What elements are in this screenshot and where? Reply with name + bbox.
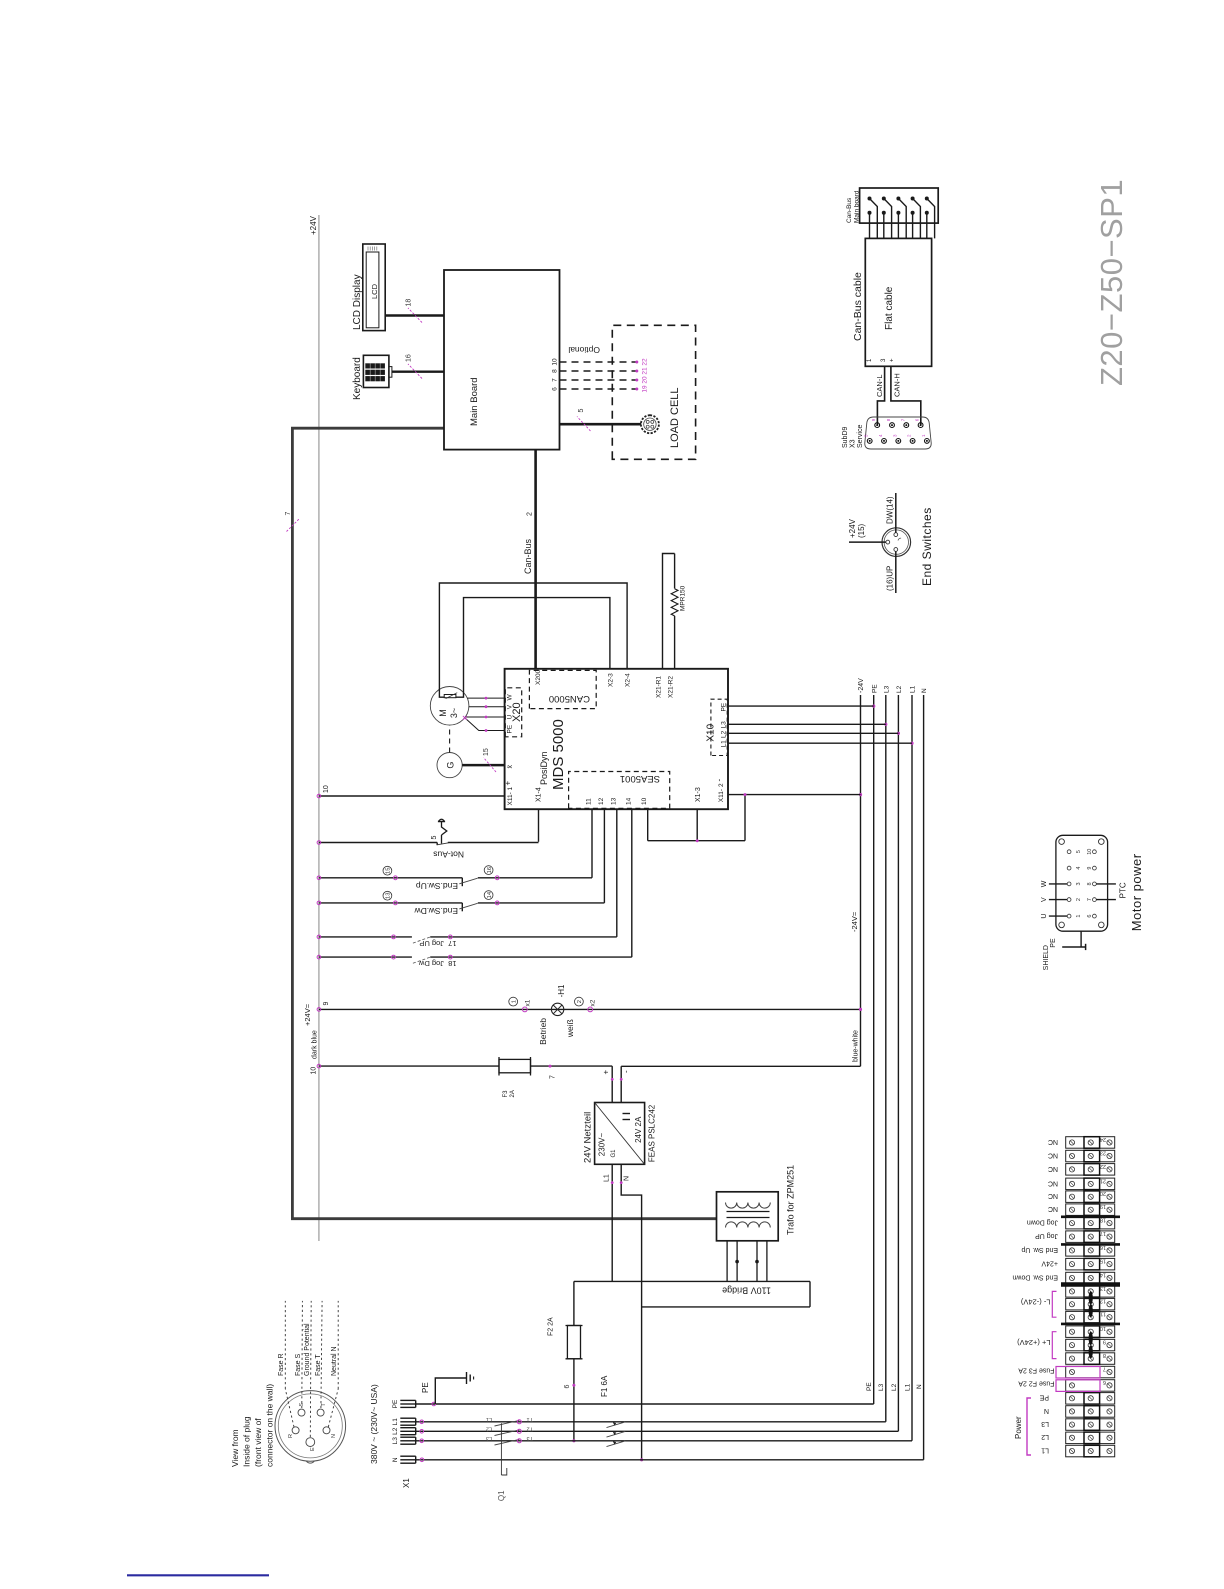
terminal strip column 24 bbox=[1066, 1137, 1115, 1149]
svg-text:X1-4: X1-4 bbox=[536, 787, 543, 802]
terminal strip column 17 bbox=[1066, 1231, 1115, 1243]
transformer T1 Trafo for ZPM251 bbox=[717, 1192, 779, 1241]
svg-text:U: U bbox=[1041, 914, 1048, 919]
svg-text:M: M bbox=[438, 709, 448, 717]
wire X2-4 to TF sensor bbox=[439, 583, 627, 697]
terminal strip column 18 bbox=[1066, 1217, 1115, 1229]
svg-text:-H1: -H1 bbox=[557, 984, 566, 997]
wire rung 10 to X11-1 bbox=[319, 795, 505, 797]
fuse F2 2A branch bbox=[573, 1281, 575, 1325]
terminal strip column 7 bbox=[1066, 1366, 1115, 1378]
svg-text:T2: T2 bbox=[527, 1426, 533, 1432]
svg-text:15: 15 bbox=[386, 867, 392, 873]
svg-text:1: 1 bbox=[512, 1000, 518, 1003]
terminal strip separators bbox=[1061, 1216, 1120, 1219]
wires motor power PTC bbox=[1096, 899, 1116, 901]
svg-text:Jog UP: Jog UP bbox=[419, 939, 444, 948]
block MDS 5000 PosiDyn bbox=[505, 669, 728, 809]
connector load cell plug bbox=[641, 415, 659, 433]
plug view circle bbox=[275, 1391, 346, 1462]
terminal strip column 13 bbox=[1066, 1286, 1115, 1298]
svg-text:MPR150: MPR150 bbox=[680, 585, 687, 611]
svg-text:x1: x1 bbox=[525, 999, 532, 1006]
svg-text:Fuse F2 2A: Fuse F2 2A bbox=[1018, 1380, 1055, 1387]
svg-text:CAN-H: CAN-H bbox=[893, 373, 902, 397]
svg-text:L1: L1 bbox=[486, 1416, 492, 1422]
svg-text:PosiDyn: PosiDyn bbox=[539, 751, 549, 785]
terminal strip column 9 bbox=[1066, 1339, 1115, 1351]
switch Jog UP (17) bbox=[319, 936, 412, 938]
svg-text:L2: L2 bbox=[486, 1426, 492, 1432]
svg-text:F2 2A: F2 2A bbox=[548, 1317, 555, 1336]
rail L2 vertical bbox=[416, 1430, 899, 1432]
svg-text:10: 10 bbox=[323, 785, 330, 793]
wire end switch DW(14) bbox=[895, 493, 897, 533]
svg-text:(front view of: (front view of bbox=[253, 1418, 263, 1467]
svg-text:N: N bbox=[392, 1457, 399, 1462]
wire netzteil plus bbox=[611, 1066, 613, 1102]
svg-text:Fase R: Fase R bbox=[278, 1353, 285, 1376]
wires motor power U V W bbox=[1049, 915, 1067, 917]
svg-text:2A: 2A bbox=[510, 1090, 516, 1097]
rail L1 horizontal bbox=[911, 695, 913, 1441]
svg-text:24V 2A: 24V 2A bbox=[634, 1116, 643, 1143]
svg-text:Optional: Optional bbox=[568, 345, 600, 355]
svg-text:N: N bbox=[331, 1434, 337, 1438]
lamp H1 Betrieb weiss bbox=[551, 1003, 563, 1015]
svg-text:End.Sw.Dw: End.Sw.Dw bbox=[414, 906, 458, 916]
terminal strip column L1 bbox=[1066, 1445, 1115, 1457]
svg-text:Trafo for ZPM251: Trafo for ZPM251 bbox=[786, 1165, 796, 1235]
block Main Board bbox=[444, 270, 560, 450]
wires motor U V W to X20 bbox=[467, 697, 504, 699]
svg-text:L3: L3 bbox=[392, 1437, 399, 1445]
svg-text:10: 10 bbox=[1100, 1325, 1106, 1331]
wire motor PE to X20 bbox=[465, 718, 505, 731]
svg-text:14: 14 bbox=[1100, 1271, 1106, 1277]
wire G to pin x (15) bbox=[462, 764, 504, 767]
svg-text:Power: Power bbox=[1014, 1416, 1023, 1439]
svg-text:6: 6 bbox=[564, 1385, 571, 1389]
svg-text:CAN5000: CAN5000 bbox=[549, 693, 590, 704]
svg-text:24: 24 bbox=[1100, 1136, 1106, 1142]
svg-text:Main Board: Main Board bbox=[469, 377, 480, 426]
terminal strip column L2 bbox=[1066, 1432, 1115, 1444]
svg-text:NC: NC bbox=[1048, 1205, 1058, 1212]
terminal strip column 20 bbox=[1066, 1191, 1115, 1203]
svg-text:+: + bbox=[890, 358, 896, 362]
motor M1 circle M 3~ bbox=[430, 687, 469, 726]
plug pin E bbox=[306, 1438, 315, 1447]
svg-text:W: W bbox=[507, 694, 514, 701]
label contact 14 bbox=[484, 891, 493, 900]
svg-text:L2: L2 bbox=[392, 1427, 399, 1435]
svg-text:weiß: weiß bbox=[565, 1019, 575, 1038]
svg-text:16: 16 bbox=[406, 354, 413, 362]
breaker F1 6A bbox=[607, 1422, 626, 1428]
svg-text:Jog Dw: Jog Dw bbox=[418, 959, 444, 968]
svg-text:2: 2 bbox=[1076, 898, 1082, 901]
svg-text:LOAD CELL: LOAD CELL bbox=[669, 387, 681, 448]
wire pin 11 bbox=[591, 809, 593, 878]
svg-text:18: 18 bbox=[448, 959, 456, 968]
svg-text:X11-: X11- bbox=[507, 792, 514, 805]
plug pin T bbox=[317, 1409, 324, 1416]
svg-text:PE: PE bbox=[392, 1399, 399, 1408]
svg-text:-24V: -24V bbox=[858, 678, 865, 693]
dashed link M to G bbox=[449, 725, 451, 752]
svg-text:N: N bbox=[921, 688, 928, 693]
terminal strip column 11 bbox=[1066, 1311, 1115, 1323]
wire end switch (16)UP bbox=[895, 551, 897, 593]
svg-text:L1: L1 bbox=[1041, 1446, 1049, 1453]
svg-text:10: 10 bbox=[552, 358, 559, 366]
svg-text:5: 5 bbox=[578, 409, 585, 413]
wire Keyboard to main board pin 16 bbox=[392, 370, 444, 372]
terminal strip column 22 bbox=[1066, 1164, 1115, 1176]
svg-text:3: 3 bbox=[1076, 882, 1082, 885]
svg-text:PE: PE bbox=[721, 702, 728, 711]
svg-text:15: 15 bbox=[483, 748, 490, 756]
wire X10 PE bbox=[727, 705, 874, 707]
svg-text:23: 23 bbox=[1100, 1149, 1106, 1155]
plug pin R bbox=[292, 1427, 299, 1434]
fuse F3 body bbox=[499, 1059, 531, 1072]
svg-text:R: R bbox=[288, 1434, 294, 1438]
wire X11-2 to -24V rail bbox=[728, 794, 861, 796]
svg-text:PE: PE bbox=[507, 724, 514, 733]
svg-text:7: 7 bbox=[552, 378, 559, 382]
svg-text:W: W bbox=[1041, 880, 1048, 887]
svg-text:L1: L1 bbox=[910, 685, 917, 693]
svg-text:L2: L2 bbox=[891, 1383, 898, 1391]
wire LCD to main board pin 16 bbox=[385, 314, 444, 316]
svg-text:+24V: +24V bbox=[1041, 1260, 1058, 1267]
svg-text:T3: T3 bbox=[527, 1435, 533, 1441]
svg-text:L1: L1 bbox=[904, 1383, 911, 1391]
svg-text:N: N bbox=[1044, 1407, 1049, 1414]
svg-text:NC: NC bbox=[1048, 1192, 1058, 1199]
svg-text:dark blue: dark blue bbox=[312, 1030, 319, 1059]
svg-text:8: 8 bbox=[552, 369, 559, 373]
svg-text:22: 22 bbox=[642, 358, 649, 366]
svg-text:24V Netzteil: 24V Netzteil bbox=[583, 1112, 594, 1163]
svg-text:PE: PE bbox=[872, 684, 879, 693]
wire Can-Bus 2 bbox=[534, 450, 537, 669]
svg-text:V: V bbox=[1041, 897, 1048, 902]
blue margin line bbox=[127, 1574, 269, 1576]
svg-text:U: U bbox=[507, 715, 514, 720]
wire main board to load cell (5) bbox=[560, 423, 642, 426]
svg-text:+24V=: +24V= bbox=[303, 1003, 312, 1026]
svg-text:Flat cable: Flat cable bbox=[884, 286, 895, 330]
svg-text:SEA5001: SEA5001 bbox=[620, 773, 660, 784]
svg-text:X3: X3 bbox=[850, 439, 857, 448]
svg-text:13: 13 bbox=[386, 892, 392, 898]
svg-text:Keyboard: Keyboard bbox=[352, 357, 363, 400]
svg-text:E: E bbox=[310, 1447, 316, 1451]
svg-text:7: 7 bbox=[1087, 898, 1093, 901]
terminal X1 bbox=[400, 1406, 415, 1408]
svg-text:7: 7 bbox=[285, 512, 292, 516]
svg-text:(15): (15) bbox=[857, 523, 866, 538]
terminal strip column 23 bbox=[1066, 1150, 1115, 1162]
svg-text:12: 12 bbox=[1100, 1298, 1106, 1304]
rail N vertical bbox=[416, 1459, 924, 1461]
svg-text:+: + bbox=[602, 1070, 611, 1075]
svg-text:L2: L2 bbox=[1041, 1433, 1049, 1440]
svg-text:6: 6 bbox=[552, 387, 559, 391]
svg-text:17: 17 bbox=[1100, 1230, 1106, 1236]
svg-text:5: 5 bbox=[1076, 850, 1082, 853]
connector SubD9 X3 Service bbox=[865, 417, 931, 449]
svg-text:L+ (+24V): L+ (+24V) bbox=[1017, 1338, 1051, 1347]
svg-text:10: 10 bbox=[1087, 849, 1093, 855]
terminal strip column 14 bbox=[1066, 1272, 1115, 1284]
svg-text:8: 8 bbox=[1103, 1352, 1106, 1358]
svg-text:-: - bbox=[715, 779, 724, 782]
svg-text:1: 1 bbox=[1076, 915, 1082, 918]
plug pin N bbox=[323, 1427, 330, 1434]
wire X10 L1 bbox=[727, 742, 912, 744]
svg-text:230V~: 230V~ bbox=[598, 1133, 607, 1157]
block 110V Bridge bbox=[574, 1280, 810, 1282]
wire X10 L3 bbox=[727, 723, 886, 725]
svg-text:L1: L1 bbox=[392, 1418, 399, 1426]
jumper links L+ group bbox=[1089, 1332, 1093, 1345]
svg-text:Can-Bus cable: Can-Bus cable bbox=[852, 272, 864, 341]
svg-text:End Switches: End Switches bbox=[920, 507, 934, 586]
jumper links L- group bbox=[1089, 1291, 1093, 1304]
wire number 7 on grey wire bbox=[287, 519, 300, 532]
rail PE horizontal bbox=[873, 695, 875, 1404]
connector End Switches circle bbox=[882, 528, 911, 557]
wire +24V rail (dark blue) bbox=[318, 215, 320, 1241]
svg-text:3~: 3~ bbox=[449, 708, 459, 718]
svg-text:F3: F3 bbox=[503, 1090, 509, 1098]
svg-text:+24V: +24V bbox=[848, 518, 857, 538]
wire rung Not-Aus to X1-4 bbox=[538, 809, 540, 842]
svg-text:17: 17 bbox=[448, 939, 456, 948]
wire CAN-H bbox=[891, 366, 921, 425]
svg-text:SHIELD: SHIELD bbox=[1043, 945, 1050, 970]
wire motor power PE shield bbox=[1080, 931, 1082, 947]
svg-text:X200: X200 bbox=[535, 669, 542, 685]
svg-text:X1: X1 bbox=[402, 1478, 411, 1488]
svg-text:End Sw. Up: End Sw. Up bbox=[1021, 1246, 1058, 1253]
svg-text:7: 7 bbox=[1103, 1365, 1106, 1371]
terminal strip column 6 bbox=[1066, 1380, 1115, 1392]
svg-text:NC: NC bbox=[1048, 1138, 1058, 1145]
svg-text:X1-3: X1-3 bbox=[695, 787, 702, 802]
svg-text:G1: G1 bbox=[611, 1149, 617, 1158]
svg-text:L3: L3 bbox=[878, 1383, 885, 1391]
connector Motor power bbox=[1056, 835, 1108, 931]
box CAN5000 (dashed) bbox=[529, 670, 596, 708]
svg-text:L3: L3 bbox=[1041, 1420, 1049, 1427]
svg-text:L1: L1 bbox=[604, 1174, 611, 1182]
svg-text:Fase T: Fase T bbox=[315, 1354, 322, 1376]
terminal strip column 19 bbox=[1066, 1204, 1115, 1216]
svg-text:Can-Bus: Can-Bus bbox=[846, 197, 853, 223]
svg-text:19: 19 bbox=[642, 385, 649, 393]
svg-text:6: 6 bbox=[1103, 1379, 1106, 1385]
svg-text:-24V=: -24V= bbox=[850, 911, 859, 932]
svg-text:Betrieb: Betrieb bbox=[538, 1018, 548, 1045]
svg-text:x2: x2 bbox=[590, 999, 597, 1006]
wire X2-3 to TF sensor bbox=[456, 598, 610, 698]
power supply G1 24V Netzteil FEAS PSLC242 bbox=[595, 1103, 645, 1165]
svg-text:Ground Potential: Ground Potential bbox=[304, 1323, 311, 1376]
brake G circle bbox=[437, 752, 462, 777]
svg-text:13: 13 bbox=[610, 797, 617, 805]
svg-text:End Sw. Down: End Sw. Down bbox=[1012, 1273, 1058, 1280]
wire pin 14 bbox=[631, 809, 633, 957]
terminal strip column 15 bbox=[1066, 1258, 1115, 1270]
svg-text:CAN-L: CAN-L bbox=[875, 374, 884, 397]
svg-text:NC: NC bbox=[1048, 1179, 1058, 1186]
svg-text:V: V bbox=[507, 704, 514, 709]
svg-text:LCD Display: LCD Display bbox=[352, 274, 363, 330]
terminal strip column PE bbox=[1066, 1393, 1115, 1405]
svg-text:12: 12 bbox=[598, 797, 605, 805]
plug pin S bbox=[298, 1409, 305, 1416]
svg-text:LCD: LCD bbox=[370, 283, 379, 299]
svg-text:7: 7 bbox=[550, 1075, 557, 1079]
rail N horizontal bbox=[923, 695, 925, 1460]
svg-text:L2: L2 bbox=[896, 685, 903, 693]
box X20 (dashed) bbox=[505, 688, 521, 737]
svg-text:(16)UP: (16)UP bbox=[886, 566, 895, 591]
wire pin 13 bbox=[616, 809, 618, 937]
svg-text:20: 20 bbox=[1100, 1190, 1106, 1196]
svg-text:2: 2 bbox=[527, 512, 534, 516]
svg-text:connector on the wall): connector on the wall) bbox=[265, 1384, 275, 1467]
svg-text:15: 15 bbox=[1100, 1258, 1106, 1264]
svg-text:9: 9 bbox=[1103, 1339, 1106, 1345]
svg-text:14: 14 bbox=[487, 891, 493, 898]
svg-text:11: 11 bbox=[586, 798, 593, 805]
svg-text:Inside of plug: Inside of plug bbox=[242, 1416, 252, 1467]
box LOAD CELL (dashed) bbox=[612, 325, 695, 459]
rail L3 vertical bbox=[416, 1440, 912, 1442]
svg-text:N: N bbox=[916, 1384, 923, 1389]
ground symbol PE bbox=[435, 1378, 466, 1404]
wire CAN-L bbox=[877, 366, 884, 425]
thermal sensor TF bbox=[444, 695, 456, 698]
wire netzteil minus to -24V rail bbox=[620, 1066, 622, 1102]
switch Jog Dw (18) bbox=[319, 956, 412, 958]
svg-text:PE: PE bbox=[1050, 938, 1057, 948]
svg-text:+: + bbox=[504, 781, 513, 786]
svg-text:X21-R1: X21-R1 bbox=[656, 676, 663, 698]
terminal strip column 12 bbox=[1066, 1298, 1115, 1310]
dashed leads plug pins bbox=[284, 1301, 286, 1389]
wire pin 12 bbox=[603, 809, 605, 903]
svg-text:16: 16 bbox=[487, 867, 493, 873]
wire X1-3 and pin 10 join bbox=[648, 840, 745, 842]
label contact 15 bbox=[383, 866, 392, 875]
svg-text:22: 22 bbox=[1100, 1163, 1106, 1169]
svg-text:Not-Aus: Not-Aus bbox=[433, 850, 464, 860]
svg-text:X11-: X11- bbox=[718, 789, 725, 802]
svg-text:Z20−Z50−SP1: Z20−Z50−SP1 bbox=[1094, 179, 1129, 386]
switch End.Sw.Dw bbox=[319, 902, 462, 904]
box SEA5001 (dashed) bbox=[569, 772, 670, 809]
block Flat cable bbox=[865, 238, 931, 366]
svg-text:Motor power: Motor power bbox=[1129, 853, 1144, 931]
svg-text:110V Bridge: 110V Bridge bbox=[722, 1286, 771, 1296]
lamp rung wire bbox=[319, 1008, 861, 1010]
svg-text:1: 1 bbox=[507, 787, 514, 791]
svg-text:T1: T1 bbox=[527, 1416, 533, 1422]
svg-text:5: 5 bbox=[431, 836, 438, 840]
rail L1 vertical bbox=[416, 1421, 886, 1423]
svg-text:End.Sw.Up: End.Sw.Up bbox=[416, 881, 458, 891]
svg-text:X2-4: X2-4 bbox=[625, 673, 632, 687]
svg-text:Main board: Main board bbox=[853, 190, 860, 223]
svg-text:-: - bbox=[622, 1070, 631, 1073]
svg-text:Can-Bus: Can-Bus bbox=[523, 538, 533, 574]
wire thick grey main-board to trafo bbox=[292, 428, 716, 1219]
svg-text:NC: NC bbox=[1048, 1151, 1058, 1158]
svg-text:L2: L2 bbox=[721, 730, 728, 738]
terminal strip column 10 bbox=[1066, 1326, 1115, 1338]
wires trafo to 110V bridge bbox=[726, 1241, 728, 1282]
svg-text:19: 19 bbox=[1100, 1203, 1106, 1209]
svg-text:X21-R2: X21-R2 bbox=[668, 676, 675, 698]
svg-text:Neutral N: Neutral N bbox=[331, 1346, 338, 1376]
svg-text:11: 11 bbox=[1100, 1311, 1106, 1317]
svg-text:L3: L3 bbox=[486, 1435, 492, 1441]
switch End.Sw.Up bbox=[319, 877, 462, 879]
resistor MPR150 bbox=[674, 616, 676, 669]
svg-text:Fuse F3 2A: Fuse F3 2A bbox=[1018, 1367, 1055, 1374]
terminal strip column 21 bbox=[1066, 1178, 1115, 1190]
svg-text:PE: PE bbox=[1039, 1394, 1049, 1401]
rail L2 horizontal bbox=[897, 695, 899, 1431]
rail PE vertical bbox=[416, 1403, 874, 1405]
terminal strip column 16 bbox=[1066, 1245, 1115, 1257]
svg-text:L1: L1 bbox=[721, 740, 728, 748]
connector Can-Bus main board bbox=[860, 188, 939, 223]
rail -24V horizontal bbox=[860, 695, 862, 1066]
svg-text:L- (-24V): L- (-24V) bbox=[1020, 1298, 1050, 1307]
svg-text:X2-3: X2-3 bbox=[608, 673, 615, 687]
wire end switch +24V (15) bbox=[849, 541, 886, 543]
svg-text:PE: PE bbox=[421, 1382, 430, 1393]
svg-text:FEAS PSLC242: FEAS PSLC242 bbox=[648, 1104, 657, 1162]
box X10 (dashed) bbox=[711, 699, 727, 755]
svg-text:14: 14 bbox=[625, 797, 632, 805]
svg-text:9: 9 bbox=[323, 1002, 330, 1006]
wires optional load cell pins bbox=[560, 361, 637, 363]
label contact 13 bbox=[383, 891, 392, 900]
svg-text:L3: L3 bbox=[721, 721, 728, 729]
svg-text:2: 2 bbox=[577, 1000, 583, 1003]
svg-text:Fase S: Fase S bbox=[295, 1353, 302, 1376]
svg-text:+24V: +24V bbox=[309, 215, 318, 235]
svg-text:PTC: PTC bbox=[1119, 882, 1128, 898]
svg-text:Q1: Q1 bbox=[497, 1490, 506, 1501]
svg-text:PE: PE bbox=[866, 1382, 873, 1391]
svg-text:SubD9: SubD9 bbox=[842, 426, 849, 448]
svg-text:21: 21 bbox=[1100, 1177, 1106, 1183]
svg-text:9: 9 bbox=[1087, 867, 1093, 870]
svg-text:N: N bbox=[624, 1176, 631, 1181]
svg-text:6: 6 bbox=[1087, 915, 1093, 918]
switch Not-Aus S1 bbox=[319, 842, 437, 844]
